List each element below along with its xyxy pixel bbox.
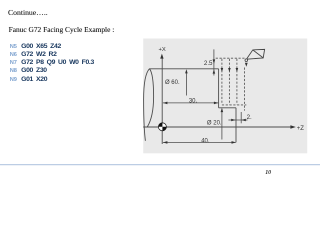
tool nose circle [245, 59, 248, 62]
wire X-axis line [161, 58, 163, 144]
workpiece top line [149, 68, 218, 70]
dim 2.5 upper arrow [213, 59, 216, 64]
Z-axis arrowhead [290, 125, 295, 128]
tool insert [246, 49, 264, 59]
tool path down arrow [245, 63, 248, 67]
svg-text:Ø 60.: Ø 60. [165, 80, 180, 86]
origin bullseye [158, 123, 166, 131]
workpiece stock face line [235, 108, 237, 143]
toolpath top dashed line [216, 57, 246, 59]
workpiece ellipse left arc [144, 69, 150, 141]
dim 40 right arrow [232, 141, 236, 144]
dim dia20 vertical line [221, 109, 223, 140]
svg-text:30.: 30. [189, 99, 198, 105]
svg-text:+Z: +Z [297, 126, 305, 132]
dim 60 arrow [185, 69, 188, 73]
dim 2.5 lower arrow [213, 69, 216, 73]
dim 2 left arrow [231, 119, 235, 122]
wire Z-axis line [143, 126, 291, 128]
heading Fanuc G72 [9, 26, 115, 33]
workpiece face line Z30 [218, 69, 220, 108]
dim 60 vertical line [185, 71, 187, 96]
svg-text:40.: 40. [201, 138, 210, 144]
pass 2 arrow [228, 68, 231, 72]
dim 2 right arrow [241, 119, 245, 122]
toolpath pass 2 dashed [228, 59, 230, 105]
toolpath pass 1 dashed [221, 59, 223, 104]
X-axis arrowhead [160, 54, 163, 59]
svg-text:2.5: 2.5 [204, 60, 213, 67]
dim dia20 arrow [221, 108, 224, 112]
gcode block [10, 44, 61, 51]
dim 30 line [163, 102, 218, 104]
pass 3 arrow [236, 68, 239, 72]
toolpath bottom dashed line [222, 104, 246, 106]
toolpath pass 3 dashed [236, 59, 238, 105]
dim 40 line [163, 141, 236, 143]
title Continue [8, 9, 48, 17]
workpiece ellipse right arc [147, 69, 153, 127]
dim 2 extension line [240, 112, 242, 123]
dim 2.5 extension line [213, 49, 215, 75]
svg-text:2.: 2. [247, 114, 252, 121]
toolpath pass 4 dashed [244, 68, 246, 111]
diagram gray panel [143, 39, 307, 154]
workpiece step line [219, 107, 236, 109]
dim 40 left arrow [163, 141, 167, 144]
pass 1 arrow [221, 68, 224, 72]
dim 30 left arrow [163, 102, 167, 105]
dim 2 line [228, 119, 247, 121]
dim 30 right arrow [214, 102, 218, 105]
svg-text:+X: +X [158, 47, 165, 53]
diagram svg [0, 0, 320, 180]
svg-text:10: 10 [265, 170, 271, 176]
svg-text:Ø 20.: Ø 20. [207, 120, 222, 126]
footer blue rule [0, 164, 320, 166]
